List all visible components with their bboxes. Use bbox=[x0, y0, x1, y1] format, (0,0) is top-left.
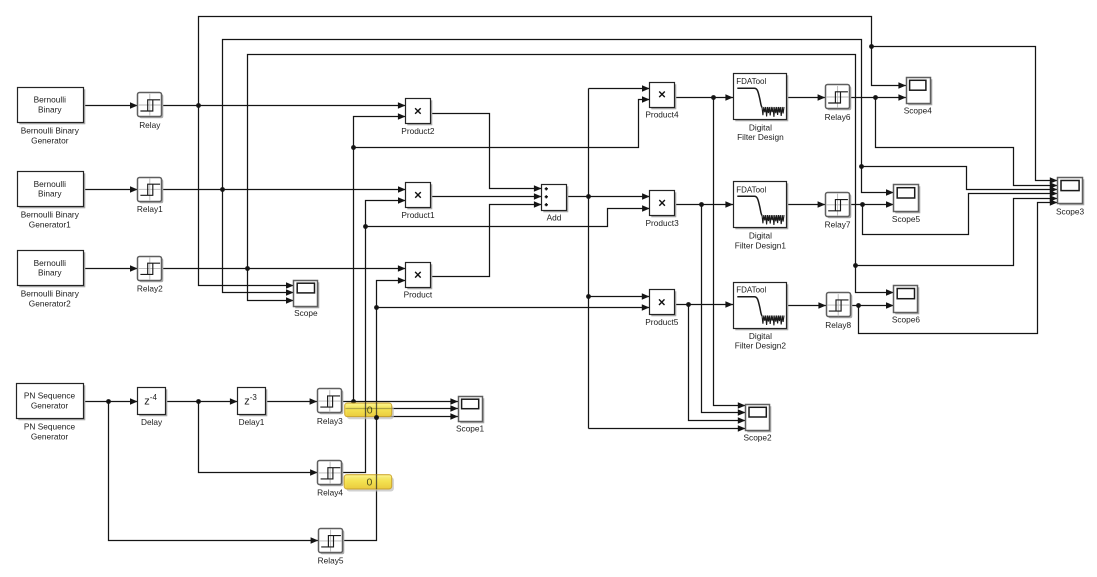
svg-text:PN Sequence: PN Sequence bbox=[24, 391, 76, 401]
node S junction on Product5 output bbox=[686, 302, 691, 307]
svg-text:Generator: Generator bbox=[31, 400, 69, 410]
svg-text:FDATool: FDATool bbox=[736, 77, 766, 86]
wire node D to Scope3 input 3 bbox=[862, 167, 1058, 193]
relay Relay3 bbox=[317, 389, 343, 427]
product Product bbox=[404, 263, 433, 300]
svg-text:FDATool: FDATool bbox=[736, 286, 766, 295]
svg-text:Digital: Digital bbox=[749, 231, 772, 241]
wire node Q down to Scope2 input 1 bbox=[714, 98, 746, 409]
block Bernoulli Binary Generator1 bbox=[18, 172, 86, 230]
wire node T down to Scope3 input 2 bbox=[876, 98, 1058, 189]
svg-text:Filter Design2: Filter Design2 bbox=[735, 341, 787, 351]
svg-text:FDATool: FDATool bbox=[736, 185, 766, 194]
wire node V down and around to Scope3 input 6 bbox=[859, 199, 1058, 333]
wire Digital Filter Design to Relay6 bbox=[788, 94, 826, 101]
wire Digital Filter Design2 to Relay8 bbox=[788, 302, 827, 309]
filter block Digital Filter Design1 bbox=[734, 182, 789, 251]
wire Bernoulli Binary Generator1 to Relay1 bbox=[83, 186, 138, 193]
svg-text:Product3: Product3 bbox=[645, 218, 679, 228]
svg-text:Binary: Binary bbox=[38, 104, 62, 114]
product Product3 bbox=[645, 191, 679, 228]
wire node E up over top then down to Scope6 input 1 bbox=[248, 55, 894, 296]
svg-text:Bernoulli Binary: Bernoulli Binary bbox=[21, 289, 80, 299]
node O junction on PN output bbox=[106, 399, 111, 404]
node V junction on Relay8 output bbox=[856, 303, 861, 308]
wire node G vertical: up to Product4 input 1, down to Product5 input 1 and Scope2 input 4 bbox=[589, 85, 746, 432]
svg-text:Relay5: Relay5 bbox=[318, 556, 344, 566]
wire Relay4 output up to Product1 input 2 bbox=[343, 197, 406, 472]
scope Scope2 bbox=[744, 405, 773, 443]
node P junction on Delay output bbox=[196, 399, 201, 404]
block Bernoulli Binary Generator bbox=[18, 88, 86, 146]
wire Add output to Product3 input 1 bbox=[567, 193, 650, 200]
wire Product output to Add input 3 bbox=[431, 201, 542, 276]
wire node S down to Scope2 input 3 bbox=[689, 305, 746, 424]
wire node I up to Product2 input 2 bbox=[354, 113, 406, 401]
node A junction on Relay output bbox=[196, 103, 201, 108]
wire Delay1 output to Relay3 input bbox=[266, 398, 318, 405]
node F junction on Scope6 feed line bbox=[853, 263, 858, 268]
node D junction on Scope5 feed line bbox=[859, 164, 864, 169]
wire Relay3 output to Scope1 input 1 bbox=[343, 398, 459, 405]
svg-text:0: 0 bbox=[366, 477, 372, 489]
svg-text:Bernoulli: Bernoulli bbox=[34, 95, 66, 105]
svg-text:Scope2: Scope2 bbox=[744, 432, 773, 442]
wire Bernoulli Binary Generator to Relay bbox=[83, 102, 138, 109]
node Q junction on Product4 output bbox=[711, 95, 716, 100]
node U junction on Relay7 output bbox=[860, 202, 865, 207]
wire Product3 output to Digital Filter Design1 bbox=[675, 201, 734, 208]
svg-text:Filter Design: Filter Design bbox=[737, 132, 784, 142]
node L junction feeding Product3 input 2 bbox=[363, 205, 650, 229]
svg-text:Relay8: Relay8 bbox=[825, 320, 851, 330]
svg-text:Scope5: Scope5 bbox=[892, 214, 921, 224]
scope Scope1 bbox=[456, 397, 485, 434]
node B junction on Scope4 feed line bbox=[869, 44, 874, 49]
svg-text:PN Sequence: PN Sequence bbox=[24, 421, 76, 431]
node E junction on Relay2 output bbox=[245, 266, 250, 271]
wire Product2 output to Add input 1 bbox=[431, 114, 542, 192]
svg-text:Product4: Product4 bbox=[645, 109, 679, 119]
svg-text:Scope: Scope bbox=[294, 308, 318, 318]
wire node R down to Scope2 input 2 bbox=[702, 205, 746, 416]
wire Relay6 output to Scope4 input 2 bbox=[851, 94, 907, 101]
svg-text:Generator2: Generator2 bbox=[29, 299, 71, 309]
wire Relay output to Product2 input 1 (junction at node A) bbox=[162, 102, 406, 109]
svg-text:Relay7: Relay7 bbox=[825, 220, 851, 230]
svg-text:Delay: Delay bbox=[141, 417, 163, 427]
wire node U down and around to Scope3 input 4 bbox=[863, 190, 1058, 234]
wire node E down to Scope input 3 bbox=[248, 269, 294, 304]
block PN Sequence Generator bbox=[17, 384, 86, 442]
svg-text:Generator1: Generator1 bbox=[29, 220, 71, 230]
node R junction on Product3 output bbox=[699, 202, 704, 207]
wire node A up over top to Scope4 input 1 bbox=[199, 17, 907, 106]
node N junction feeding Product5 input 2 bbox=[374, 304, 649, 311]
relay Relay7 bbox=[825, 193, 852, 230]
product Product4 bbox=[645, 83, 679, 120]
svg-text:Relay: Relay bbox=[139, 120, 161, 130]
svg-text:Scope4: Scope4 bbox=[904, 106, 933, 116]
product Product5 bbox=[645, 290, 679, 328]
wire node O down to Relay5 input bbox=[109, 402, 319, 544]
svg-text:Filter Design1: Filter Design1 bbox=[735, 240, 787, 250]
wire Relay8 output to Scope6 input 2 bbox=[851, 302, 894, 309]
svg-text:Product: Product bbox=[404, 290, 433, 300]
svg-text:0: 0 bbox=[367, 405, 373, 417]
svg-text:Digital: Digital bbox=[749, 123, 772, 133]
svg-text:Generator: Generator bbox=[31, 431, 69, 441]
svg-text:Product2: Product2 bbox=[401, 126, 435, 136]
wire node F to Scope3 input 5 bbox=[856, 195, 1058, 265]
wire Product1 output to Add input 2 bbox=[431, 193, 542, 200]
node I junction on Relay3 output bbox=[351, 399, 356, 404]
relay Relay bbox=[138, 93, 164, 130]
svg-text:Delay1: Delay1 bbox=[239, 417, 265, 427]
svg-text:Add: Add bbox=[547, 212, 562, 222]
svg-text:Scope3: Scope3 bbox=[1056, 206, 1085, 216]
node M junction to Scope1 input 3 bbox=[374, 413, 458, 420]
svg-text:Generator: Generator bbox=[31, 135, 69, 145]
filter block Digital Filter Design2 bbox=[734, 283, 789, 351]
svg-text:Relay1: Relay1 bbox=[137, 204, 163, 214]
wire Relay1 output to Product1 input 1 bbox=[162, 186, 406, 193]
svg-text:Bernoulli: Bernoulli bbox=[34, 179, 66, 189]
wire Delay output to Delay1 bbox=[166, 398, 238, 405]
node T junction on Relay6 output bbox=[873, 95, 878, 100]
node C junction on Relay1 output bbox=[220, 187, 225, 192]
svg-text:Binary: Binary bbox=[38, 268, 62, 278]
scope Scope3 bbox=[1056, 178, 1085, 217]
node K junction to Scope1 input 2 bbox=[363, 405, 458, 412]
scope Scope4 bbox=[904, 78, 933, 116]
wire segments visible through value displays bbox=[346, 403, 392, 489]
scope Scope5 bbox=[892, 185, 921, 225]
wire Digital Filter Design1 to Relay7 bbox=[788, 201, 826, 208]
block Bernoulli Binary Generator2 bbox=[18, 251, 86, 309]
wire Bernoulli Binary Generator2 to Relay2 bbox=[83, 265, 138, 272]
delay block Delay bbox=[138, 388, 168, 428]
wire Product5 output to Digital Filter Design2 bbox=[675, 301, 734, 308]
svg-text:Relay4: Relay4 bbox=[317, 488, 343, 498]
svg-text:Bernoulli: Bernoulli bbox=[34, 258, 66, 268]
value display Relay3 output value 0 bbox=[345, 403, 394, 419]
relay Relay2 bbox=[137, 257, 163, 294]
product Product1 bbox=[401, 183, 435, 220]
wire Relay7 output to Scope5 input 2 bbox=[851, 201, 894, 208]
svg-text:Scope1: Scope1 bbox=[456, 424, 485, 434]
wire Product4 output to Digital Filter Design bbox=[675, 94, 734, 101]
relay Relay4 bbox=[317, 461, 343, 498]
delay block Delay1 bbox=[238, 388, 268, 428]
svg-text:Relay3: Relay3 bbox=[317, 416, 343, 426]
scope Scope bbox=[294, 281, 320, 319]
svg-text:Relay6: Relay6 bbox=[825, 112, 851, 122]
wire node C down to Scope input 2 bbox=[223, 190, 294, 296]
svg-text:Digital: Digital bbox=[749, 331, 772, 341]
node J junction feeding Product4 input 2 bbox=[351, 96, 649, 150]
node H junction feeding Product5 input 1 bbox=[586, 293, 649, 300]
filter block Digital Filter Design bbox=[734, 74, 789, 143]
relay Relay8 bbox=[825, 293, 852, 331]
svg-text:Product1: Product1 bbox=[401, 210, 435, 220]
scope Scope6 bbox=[892, 286, 921, 325]
svg-text:Relay2: Relay2 bbox=[137, 283, 163, 293]
sum block Add bbox=[542, 185, 569, 223]
product Product2 bbox=[401, 99, 435, 137]
wire node A down to Scope input 1 bbox=[199, 106, 294, 289]
wire node C up over top then down to Scope5 input 1 bbox=[223, 40, 894, 196]
node G junction on Add output bbox=[586, 194, 591, 199]
svg-text:Bernoulli Binary: Bernoulli Binary bbox=[21, 210, 80, 220]
relay Relay6 bbox=[825, 85, 852, 122]
relay Relay5 bbox=[318, 529, 345, 566]
wire Relay2 output to Product input 1 bbox=[162, 265, 406, 272]
svg-text:Product5: Product5 bbox=[645, 317, 679, 327]
svg-text:Bernoulli Binary: Bernoulli Binary bbox=[21, 125, 80, 135]
svg-text:Scope6: Scope6 bbox=[892, 315, 921, 325]
wire PN Sequence Generator to Delay bbox=[84, 398, 138, 405]
svg-text:Binary: Binary bbox=[38, 189, 62, 199]
wire node P down to Relay4 input bbox=[199, 402, 318, 476]
wire Relay5 output up to Product input 2 bbox=[344, 277, 406, 540]
value display Relay4 output value 0 bbox=[344, 475, 394, 492]
relay Relay1 bbox=[137, 178, 163, 215]
wire node B to Scope3 input 1 bbox=[872, 47, 1058, 184]
